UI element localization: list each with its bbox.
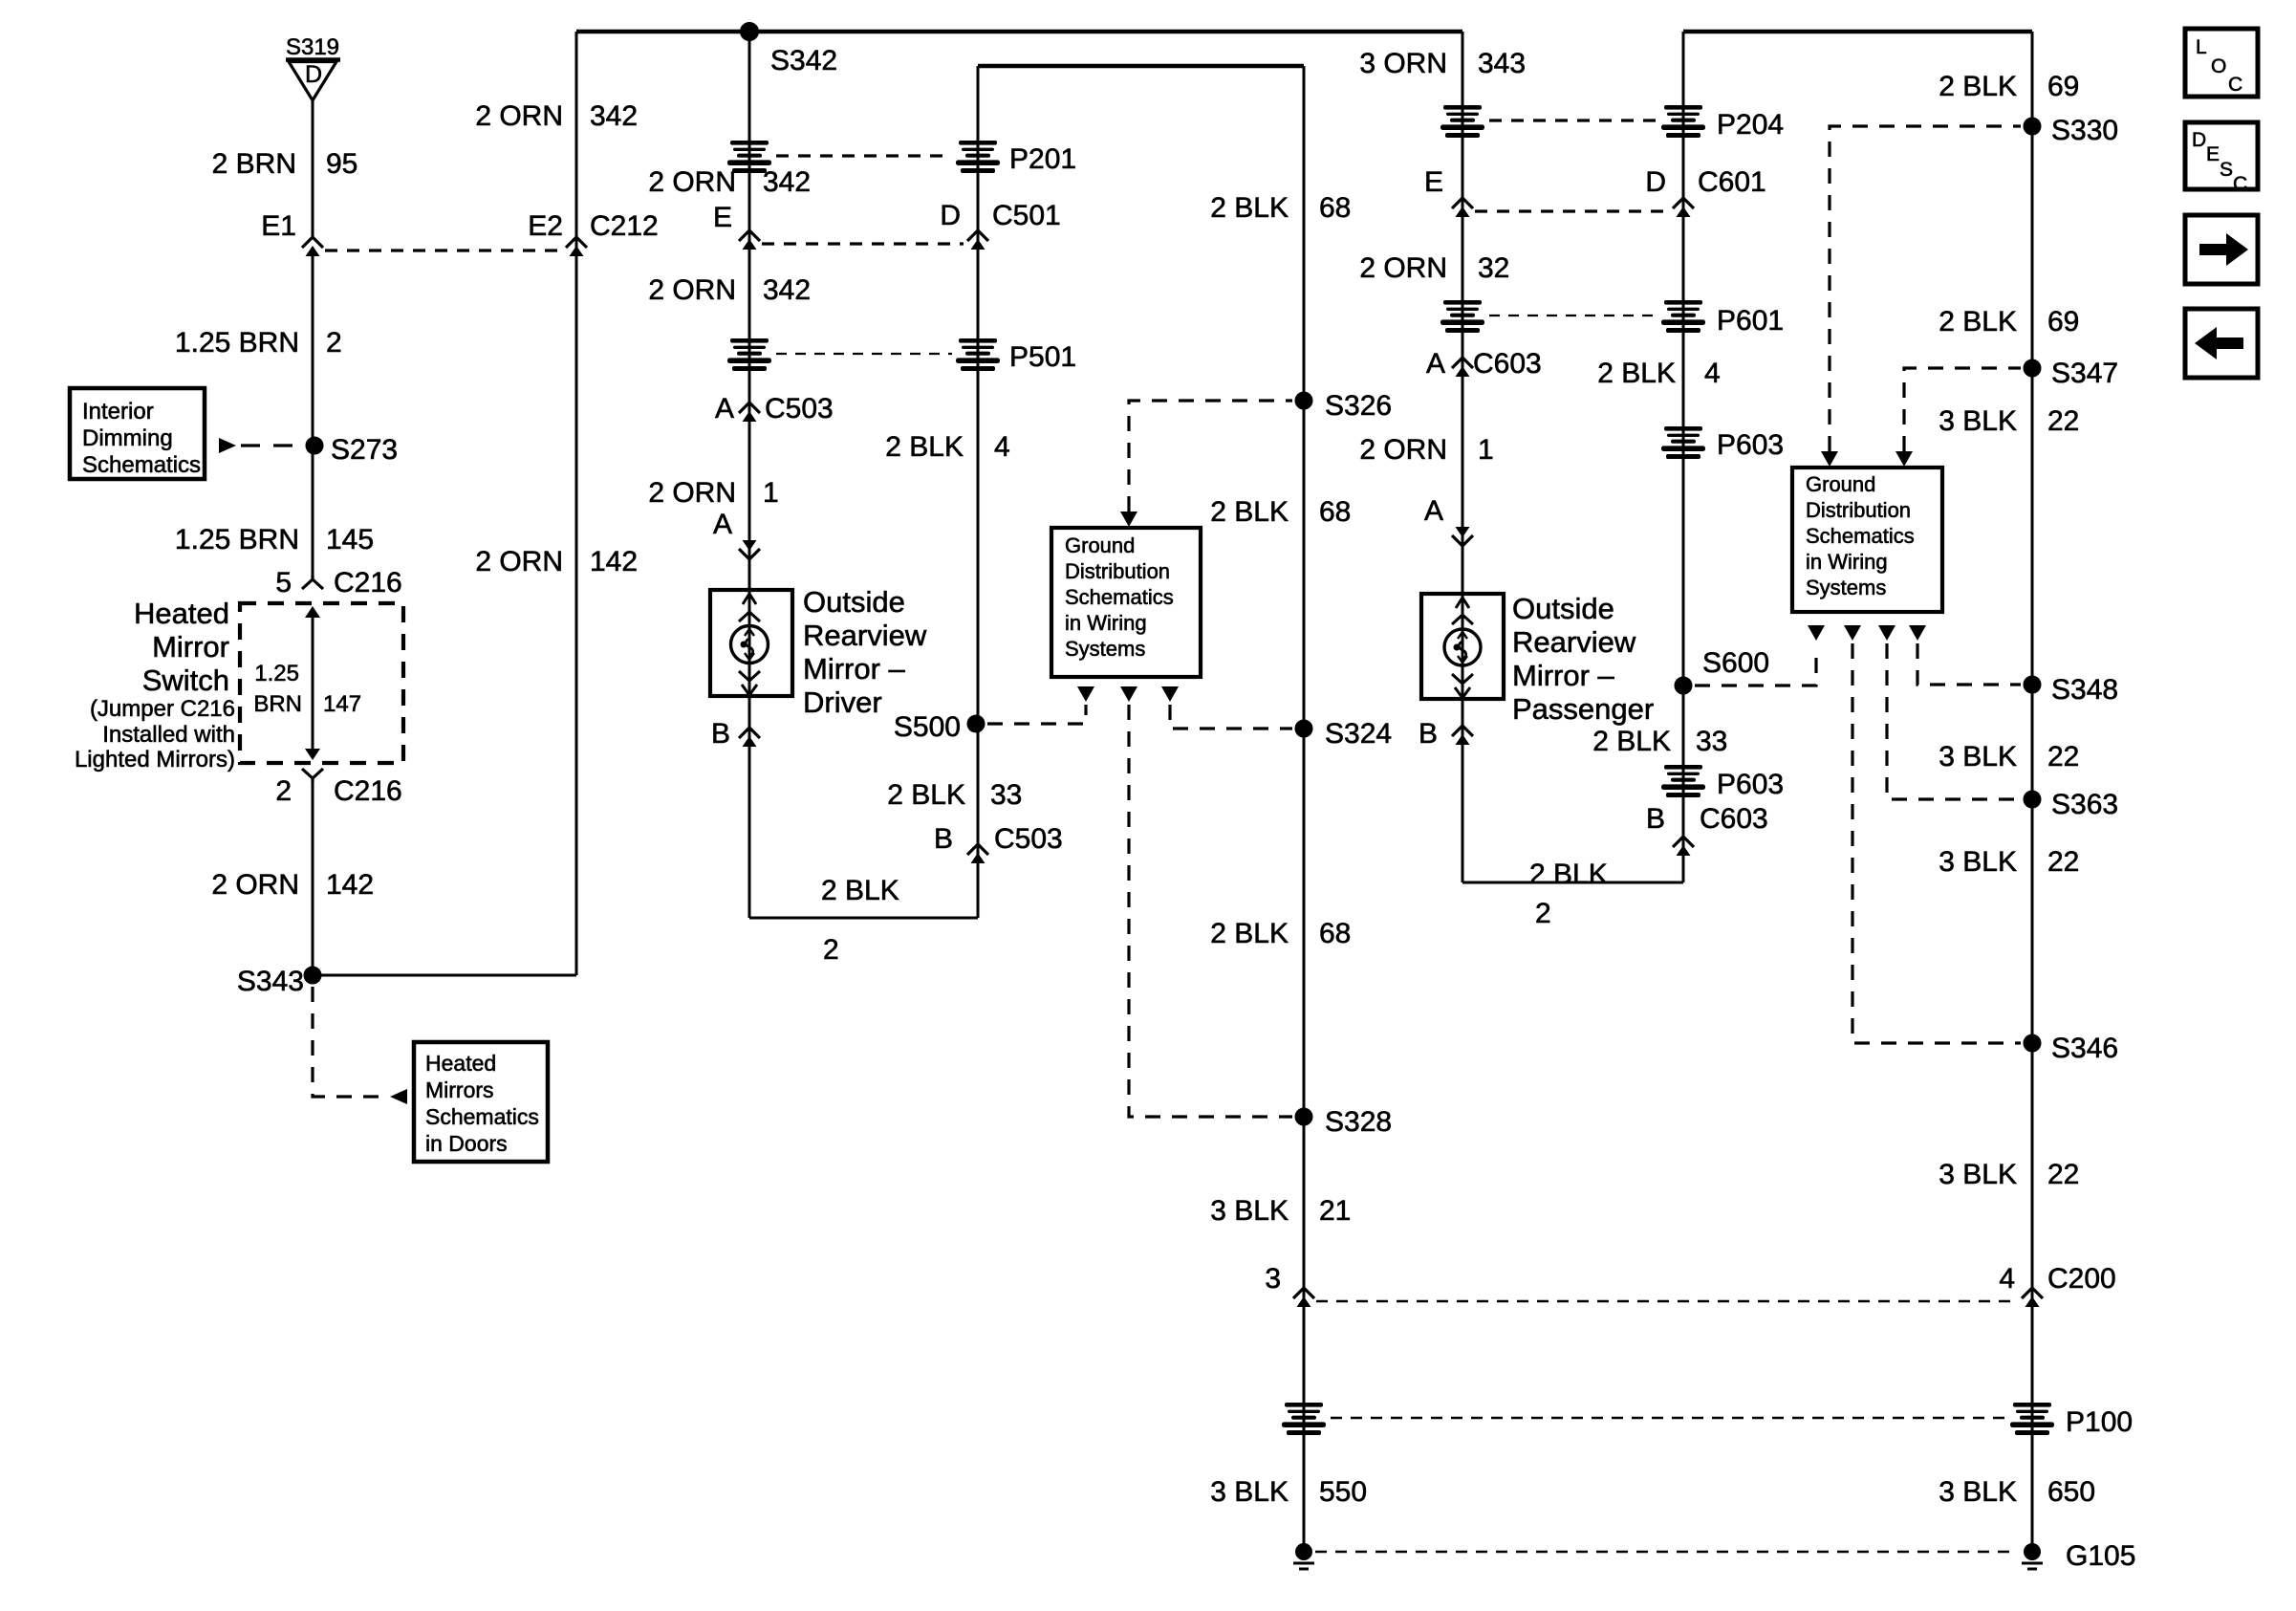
ground triangle S319 <box>286 34 340 100</box>
svg-text:Schematics: Schematics <box>82 452 201 478</box>
grommet P100 left <box>1282 1403 1326 1435</box>
svg-text:2 ORN: 2 ORN <box>648 274 736 306</box>
svg-text:Heated: Heated <box>134 597 229 630</box>
svg-text:2 ORN: 2 ORN <box>1359 434 1447 466</box>
svg-text:342: 342 <box>763 166 811 198</box>
svg-text:2: 2 <box>1535 898 1551 929</box>
wire 1.25 BRN 147 inside switch (arrow up top, arrow down bottom) <box>305 606 320 760</box>
splice S328 <box>1295 1108 1312 1125</box>
wire bottom jumper passenger <box>1462 882 1683 884</box>
svg-text:C603: C603 <box>1473 348 1542 380</box>
splice S326 <box>1295 392 1312 409</box>
grommet P601 left <box>1440 300 1484 333</box>
splice S342 <box>741 23 759 41</box>
svg-text:S600: S600 <box>1702 647 1769 679</box>
svg-text:2: 2 <box>823 934 839 966</box>
svg-text:3 BLK: 3 BLK <box>1939 741 2017 773</box>
svg-text:C503: C503 <box>765 393 834 425</box>
arrow under left GD box 1 <box>1077 686 1094 702</box>
svg-text:P204: P204 <box>1717 109 1784 141</box>
svg-text:D: D <box>940 200 961 231</box>
svg-text:Mirrors: Mirrors <box>425 1078 494 1102</box>
svg-text:C: C <box>2233 173 2247 195</box>
arrow into right GD box from S347 <box>1895 451 1913 467</box>
svg-text:2 ORN: 2 ORN <box>1359 252 1447 284</box>
svg-text:C501: C501 <box>992 200 1061 231</box>
icon: DESC box <box>2185 122 2258 195</box>
wire: 2 BLK 68 top horizontal <box>978 64 1304 69</box>
ground symbol right G105 <box>2022 1544 2043 1570</box>
svg-text:3 BLK: 3 BLK <box>1939 1476 2017 1508</box>
arrow into Heated Mirrors box <box>390 1089 407 1104</box>
wire S343 to right riser <box>313 974 576 977</box>
svg-text:343: 343 <box>1478 48 1526 79</box>
svg-text:B: B <box>1419 718 1438 750</box>
splice S600 <box>1675 677 1692 694</box>
svg-text:P501: P501 <box>1009 341 1076 373</box>
svg-text:C200: C200 <box>2047 1263 2116 1295</box>
icon: LOC box <box>2185 29 2258 97</box>
dashed box: Heated Mirror Switch jumper <box>240 603 403 763</box>
svg-text:142: 142 <box>326 869 374 901</box>
svg-text:S348: S348 <box>2051 674 2118 706</box>
svg-text:Systems: Systems <box>1806 576 1886 599</box>
ground symbol left <box>1293 1544 1314 1570</box>
arrow into right GD box from S330 <box>1821 451 1838 467</box>
svg-text:1.25: 1.25 <box>254 661 299 686</box>
svg-text:Mirror –: Mirror – <box>803 652 906 686</box>
svg-text:2 BLK: 2 BLK <box>1210 192 1289 224</box>
svg-text:S326: S326 <box>1325 390 1392 422</box>
svg-text:Heated: Heated <box>425 1051 496 1076</box>
arrow into left GD box top (from S326) <box>1120 512 1137 527</box>
arrow under right GD box 1 (S600) <box>1808 625 1825 641</box>
dashed link to S273 <box>241 444 304 446</box>
grommet P501 left <box>727 338 771 371</box>
svg-text:S273: S273 <box>331 434 398 466</box>
splice S500 <box>967 715 985 732</box>
svg-text:2 BLK: 2 BLK <box>821 875 899 906</box>
svg-text:Schematics: Schematics <box>1806 524 1915 548</box>
wire 2 ORN 342 driver drop <box>748 32 751 918</box>
svg-text:4: 4 <box>1999 1263 2015 1295</box>
svg-text:C216: C216 <box>334 567 402 599</box>
icon: left arrow box <box>2185 309 2258 378</box>
svg-text:2 BLK: 2 BLK <box>1592 726 1671 757</box>
svg-text:Schematics: Schematics <box>425 1104 539 1129</box>
svg-text:Dimming: Dimming <box>82 425 173 451</box>
svg-text:2 BLK: 2 BLK <box>1939 306 2017 337</box>
svg-text:Installed with: Installed with <box>102 722 235 748</box>
svg-text:1.25 BRN: 1.25 BRN <box>175 524 299 555</box>
svg-text:3 ORN: 3 ORN <box>1359 48 1447 79</box>
svg-text:A: A <box>1424 495 1443 527</box>
svg-text:Driver: Driver <box>803 686 882 719</box>
svg-text:Ground: Ground <box>1065 533 1135 557</box>
splice S343 <box>304 967 321 984</box>
svg-text:(Jumper C216: (Jumper C216 <box>90 696 235 722</box>
heated mirror switch label <box>75 597 235 773</box>
dashed G105 link <box>1315 1551 2011 1554</box>
svg-text:33: 33 <box>1696 726 1727 757</box>
svg-text:2: 2 <box>275 775 292 807</box>
svg-text:22: 22 <box>2047 846 2079 878</box>
dashed S347 path <box>1904 368 2021 451</box>
svg-text:Ground: Ground <box>1806 472 1875 496</box>
svg-text:147: 147 <box>323 691 361 717</box>
svg-text:Outside: Outside <box>803 585 905 619</box>
svg-text:E: E <box>1424 166 1443 198</box>
grommet P603 lower <box>1661 765 1705 797</box>
svg-text:S: S <box>2220 159 2233 181</box>
box: Outside Rearview Mirror Passenger with heater element <box>1421 594 1504 699</box>
svg-text:4: 4 <box>1704 358 1721 389</box>
wire 2 ORN 142 down to S343 <box>312 782 314 975</box>
wire 2 BLK 68 drop <box>1303 66 1306 1552</box>
svg-text:S319: S319 <box>286 34 339 60</box>
svg-text:2 BLK: 2 BLK <box>1210 496 1289 528</box>
svg-text:22: 22 <box>2047 741 2079 773</box>
svg-text:3 BLK: 3 BLK <box>1210 1195 1289 1227</box>
box: Outside Rearview Mirror Driver with heater element <box>710 590 792 696</box>
arrow under right GD box 2 (S346) <box>1844 625 1861 641</box>
dashed C200 link <box>1316 1300 2019 1303</box>
svg-text:342: 342 <box>763 274 811 306</box>
grommet P603 upper <box>1661 426 1705 459</box>
dashed S600 to right GD box <box>1695 658 1816 686</box>
box: Ground Distribution Schematics left <box>1051 528 1201 677</box>
svg-text:C212: C212 <box>590 210 659 242</box>
svg-text:S500: S500 <box>894 711 961 743</box>
svg-text:S328: S328 <box>1325 1106 1392 1138</box>
dashed down to S328 <box>1129 705 1292 1117</box>
svg-text:D: D <box>1645 166 1666 198</box>
svg-text:Mirror: Mirror <box>152 630 229 664</box>
svg-text:Rearview: Rearview <box>1512 625 1636 659</box>
splice S363 <box>2024 791 2041 808</box>
wire 1.25 BRN 2 <box>312 252 314 576</box>
dashed P204 pair <box>1489 119 1657 121</box>
svg-text:BRN: BRN <box>253 691 302 717</box>
label Outside Rearview Mirror Driver <box>803 585 927 719</box>
svg-text:P603: P603 <box>1717 429 1784 461</box>
svg-text:68: 68 <box>1319 192 1351 224</box>
svg-text:68: 68 <box>1319 496 1351 528</box>
dashed S500 to ground dist arrows <box>987 705 1086 724</box>
svg-text:2 BRN: 2 BRN <box>212 148 296 180</box>
svg-text:D: D <box>2192 129 2206 151</box>
svg-text:E: E <box>2206 143 2220 165</box>
svg-text:E1: E1 <box>261 210 296 242</box>
box: Ground Distribution Schematics right <box>1792 468 1942 612</box>
svg-text:C503: C503 <box>994 823 1063 855</box>
arrow under left GD box 3 <box>1161 686 1179 702</box>
svg-text:Distribution: Distribution <box>1806 498 1911 522</box>
svg-text:1: 1 <box>1478 434 1494 466</box>
grommet P204 right <box>1661 105 1705 138</box>
svg-text:G105: G105 <box>2066 1540 2135 1572</box>
wire bottom jumper driver <box>749 917 978 920</box>
svg-text:2 BLK: 2 BLK <box>885 431 964 463</box>
svg-text:2 ORN: 2 ORN <box>475 100 563 132</box>
svg-text:1.25 BRN: 1.25 BRN <box>175 327 299 359</box>
svg-text:C603: C603 <box>1700 803 1768 835</box>
splice S346 <box>2024 1034 2041 1052</box>
svg-text:P100: P100 <box>2066 1406 2133 1438</box>
svg-text:4: 4 <box>994 431 1010 463</box>
splice S324 <box>1295 720 1312 737</box>
svg-text:2 ORN: 2 ORN <box>648 166 736 198</box>
dashed to S363 <box>1887 643 2021 799</box>
svg-text:in Doors: in Doors <box>425 1131 508 1156</box>
svg-text:S324: S324 <box>1325 718 1392 750</box>
svg-text:3 BLK: 3 BLK <box>1939 846 2017 878</box>
dashed P601 pair <box>1489 315 1657 316</box>
dashed P501 pair <box>776 353 952 355</box>
svg-text:Mirror –: Mirror – <box>1512 659 1615 692</box>
svg-text:2 ORN: 2 ORN <box>648 477 736 509</box>
dashed P100 link <box>1331 1417 2005 1420</box>
grommet P501 right <box>956 338 1000 371</box>
grommet P201 right <box>956 141 1000 173</box>
arrow under right GD box 3 (S363) <box>1878 625 1895 641</box>
svg-text:B: B <box>711 718 730 750</box>
svg-text:S342: S342 <box>770 45 837 76</box>
grommet P601 right <box>1661 300 1705 333</box>
svg-text:E: E <box>713 202 732 233</box>
svg-text:A: A <box>715 393 734 425</box>
svg-text:32: 32 <box>1478 252 1509 284</box>
dashed S326 path <box>1129 401 1292 512</box>
dashed to S348 <box>1917 643 2021 685</box>
svg-text:69: 69 <box>2047 71 2079 102</box>
svg-text:550: 550 <box>1319 1476 1367 1508</box>
svg-text:P201: P201 <box>1009 143 1076 175</box>
dashed S330 path <box>1830 126 2021 451</box>
svg-text:Interior: Interior <box>82 399 154 425</box>
svg-text:Outside: Outside <box>1512 592 1614 625</box>
wire 3 ORN 343 drop <box>1462 32 1464 882</box>
riser 2 ORN 142 / 2 ORN 342 x=603 <box>575 32 578 975</box>
arrow under right GD box 4 (S348) <box>1909 625 1926 641</box>
svg-text:B: B <box>1646 803 1665 835</box>
wire 2 BLK 4 drop <box>977 66 980 918</box>
svg-text:Schematics: Schematics <box>1065 585 1174 609</box>
svg-text:650: 650 <box>2047 1476 2095 1508</box>
svg-text:A: A <box>713 509 732 540</box>
svg-text:C216: C216 <box>334 775 402 807</box>
grommet P204 left <box>1440 105 1484 138</box>
svg-text:2 ORN: 2 ORN <box>475 546 563 577</box>
svg-text:68: 68 <box>1319 918 1351 949</box>
svg-text:69: 69 <box>2047 306 2079 337</box>
svg-text:5: 5 <box>275 567 292 599</box>
svg-text:S330: S330 <box>2051 115 2118 146</box>
svg-text:C: C <box>2228 74 2242 96</box>
svg-text:2 BLK: 2 BLK <box>887 779 965 811</box>
wire 2 BRN 95 <box>312 100 314 238</box>
svg-text:Distribution: Distribution <box>1065 559 1170 583</box>
svg-text:E2: E2 <box>528 210 563 242</box>
dashed down to S346 <box>1852 643 2021 1043</box>
svg-text:3: 3 <box>1265 1263 1281 1295</box>
svg-text:95: 95 <box>326 148 357 180</box>
dashed S343 to Heated Mirrors box <box>313 987 382 1097</box>
dashed to S324 <box>1170 705 1292 729</box>
grommet P201 left <box>727 141 771 173</box>
svg-text:2 ORN: 2 ORN <box>211 869 299 901</box>
svg-text:L: L <box>2196 36 2207 58</box>
splice S330 <box>2024 118 2041 135</box>
svg-text:342: 342 <box>590 100 638 132</box>
svg-text:Passenger: Passenger <box>1512 692 1654 726</box>
svg-text:Switch: Switch <box>142 664 229 697</box>
svg-text:1: 1 <box>763 477 779 509</box>
svg-text:S343: S343 <box>237 966 304 997</box>
arrow under left GD box 2 <box>1120 686 1137 702</box>
svg-text:S347: S347 <box>2051 358 2118 389</box>
svg-text:Rearview: Rearview <box>803 619 927 652</box>
svg-text:Lighted Mirrors): Lighted Mirrors) <box>75 747 235 773</box>
svg-text:22: 22 <box>2047 405 2079 437</box>
svg-text:A: A <box>1426 348 1445 380</box>
svg-text:Systems: Systems <box>1065 637 1145 661</box>
svg-text:3 BLK: 3 BLK <box>1939 1159 2017 1190</box>
svg-text:2 BLK: 2 BLK <box>1210 918 1289 949</box>
box: Heated Mirrors Schematics in Doors <box>414 1042 548 1162</box>
wire: top bus passenger right <box>1683 30 2032 34</box>
svg-text:P603: P603 <box>1717 769 1784 800</box>
svg-text:2 BLK: 2 BLK <box>1939 71 2017 102</box>
splice S273 <box>306 437 323 454</box>
svg-text:2: 2 <box>326 327 342 359</box>
wire: top feed bus S342 <box>576 30 1462 34</box>
svg-text:P601: P601 <box>1717 305 1784 337</box>
svg-text:3 BLK: 3 BLK <box>1210 1476 1289 1508</box>
label Outside Rearview Mirror Passenger <box>1512 592 1654 726</box>
svg-text:3 BLK: 3 BLK <box>1939 405 2017 437</box>
svg-text:2 BLK: 2 BLK <box>1597 358 1676 389</box>
icon: right arrow box <box>2185 215 2258 284</box>
splice S348 <box>2024 676 2041 693</box>
grommet P100 right <box>2010 1403 2054 1435</box>
svg-text:in Wiring: in Wiring <box>1065 611 1147 635</box>
wire 2 BLK 69 drop <box>2031 32 2034 1552</box>
svg-text:33: 33 <box>990 779 1022 811</box>
svg-text:O: O <box>2211 55 2226 77</box>
svg-text:142: 142 <box>590 546 638 577</box>
svg-text:in Wiring: in Wiring <box>1806 550 1888 574</box>
arrow from Interior Dimming box <box>219 438 236 453</box>
svg-text:B: B <box>934 823 953 855</box>
svg-text:22: 22 <box>2047 1159 2079 1190</box>
svg-text:21: 21 <box>1319 1195 1351 1227</box>
wire 2 BLK right drop <box>1682 32 1685 882</box>
dashed link E1-E2 <box>325 249 566 251</box>
svg-text:145: 145 <box>326 524 374 555</box>
svg-text:2 BLK: 2 BLK <box>1529 859 1608 890</box>
box: Interior Dimming Schematics <box>70 388 205 479</box>
dashed P201 pair <box>776 154 952 157</box>
svg-text:D: D <box>305 61 322 88</box>
splice S347 <box>2024 359 2041 377</box>
svg-text:S346: S346 <box>2051 1033 2118 1064</box>
svg-text:S363: S363 <box>2051 789 2118 820</box>
svg-text:C601: C601 <box>1698 166 1766 198</box>
